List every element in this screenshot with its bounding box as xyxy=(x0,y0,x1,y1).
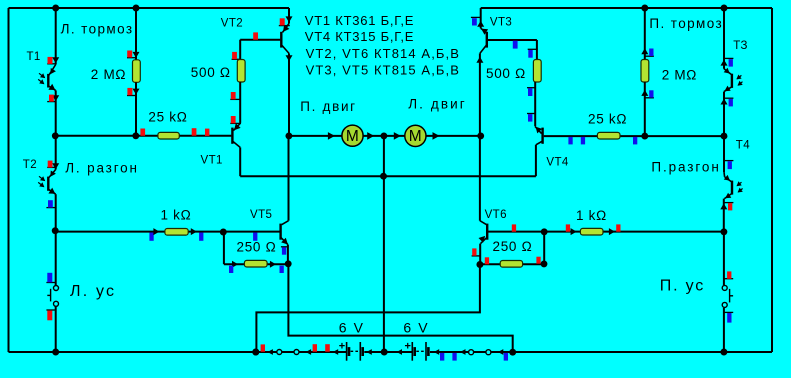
wire collector row xyxy=(240,175,536,177)
blue indicator before R 1k-left xyxy=(149,233,153,241)
blue indicator 2 below R 250-left xyxy=(280,266,284,273)
wire right button to bottom rail xyxy=(723,308,725,352)
svg-text:M: M xyxy=(346,128,359,145)
current arrow up below T3 xyxy=(721,99,728,105)
current arrow battery row 5 xyxy=(397,349,402,355)
pushbutton SB2 actuator xyxy=(729,289,731,303)
node VT6 bus to rail xyxy=(252,349,259,356)
node left accel / feedback junction xyxy=(220,229,227,236)
wire 500-left top drop xyxy=(239,40,241,60)
wire T2 collector feed xyxy=(55,136,57,170)
current arrow feedback-left 1 xyxy=(232,261,238,268)
svg-text:П. ус: П. ус xyxy=(660,277,705,294)
red indicator before R 1k-right xyxy=(566,224,570,231)
transistor VT6 (KT814 PNP) xyxy=(480,221,487,225)
resistor R8 2 MOhm right xyxy=(641,60,649,83)
wire T1 emitter to node xyxy=(55,90,57,135)
current arrow up above R 2M-right xyxy=(641,48,648,54)
svg-text:2 МΩ: 2 МΩ xyxy=(662,68,697,83)
node top rail / 2M-left xyxy=(133,5,140,12)
wire VT4 collector drop xyxy=(535,145,537,176)
node VT5 emitter junction xyxy=(285,260,292,267)
current arrow feedback-left 2 xyxy=(270,261,276,268)
svg-text:VT1: VT1 xyxy=(201,154,223,166)
terminal post right B xyxy=(486,350,491,355)
red indicator at VT6 emitter xyxy=(472,255,481,257)
red indicator 1 right of R 25k-left xyxy=(192,128,197,136)
red indicator 1 below R 500-left xyxy=(230,98,241,100)
terminal post left A xyxy=(277,350,282,355)
wire 500-right bottom to VT4 emitter xyxy=(534,82,536,126)
svg-text:VT1 КТ361 Б,Г,Е: VT1 КТ361 Б,Г,Е xyxy=(305,13,414,28)
svg-text:250 Ω: 250 Ω xyxy=(237,240,277,255)
blue indicator before VT5 base xyxy=(253,233,257,241)
current arrow battery row 8 xyxy=(498,349,503,355)
phototransistor T2 xyxy=(49,170,56,178)
red indicator above R 2M-left xyxy=(127,57,137,59)
red indicator above T1 xyxy=(47,63,56,65)
svg-text:6 V: 6 V xyxy=(339,319,365,335)
wire center column xyxy=(383,136,385,352)
node top-left rail / T1 column xyxy=(52,5,59,12)
current arrow down above T2 xyxy=(52,163,59,169)
resistor R7 25 kOhm right xyxy=(597,132,620,139)
red indicator at VT2 emitter xyxy=(279,25,290,27)
wire 2M-left top feed xyxy=(135,8,137,60)
svg-text:25 kΩ: 25 kΩ xyxy=(588,111,627,126)
red indicator 2 above R 250-right xyxy=(536,257,540,264)
current arrow battery row 3 xyxy=(333,349,338,355)
transistor VT2 (KT814 PNP) xyxy=(283,24,290,33)
node right base junction xyxy=(721,133,728,140)
node VT6 emitter junction xyxy=(476,261,483,268)
svg-text:П. тормоз: П. тормоз xyxy=(649,16,723,31)
pushbutton SB1 actuator xyxy=(50,289,52,302)
node bottom rail right xyxy=(720,349,727,356)
transistor VT4 (KT315 NPN) xyxy=(541,128,543,144)
node motor row center xyxy=(380,132,387,139)
svg-text:VT5: VT5 xyxy=(250,209,272,221)
svg-text:Л. разгон: Л. разгон xyxy=(65,160,139,175)
svg-text:500 Ω: 500 Ω xyxy=(191,65,231,80)
wire top-right rail xyxy=(481,7,772,9)
phototransistor T1 xyxy=(49,65,56,76)
red indicator battery row 1 xyxy=(261,344,265,351)
red indicator above T2 xyxy=(47,166,56,168)
red indicator 1 above R 250-right xyxy=(485,257,489,264)
red indicator left of R 25k-left xyxy=(140,129,145,136)
wire right base row xyxy=(544,135,724,137)
node top rail / T3 column xyxy=(721,5,728,12)
blue indicator above T3 xyxy=(723,57,733,59)
resistor R3 500 Ohm left xyxy=(237,60,245,83)
wire VT5 collector riser xyxy=(288,136,290,221)
current arrow up below R 2M-right xyxy=(641,90,648,96)
svg-text:VT3: VT3 xyxy=(490,16,512,28)
wire T1 collector feed xyxy=(55,8,57,65)
red indicator below T1 xyxy=(47,101,56,103)
svg-text:+: + xyxy=(339,340,345,352)
wire VT6 emitter drop xyxy=(479,244,481,265)
wire 2M-right bottom xyxy=(644,82,646,136)
blue indicator 2 after VT4 base xyxy=(581,137,585,145)
svg-text:250 Ω: 250 Ω xyxy=(493,239,533,254)
wire feedback-right row xyxy=(480,263,544,265)
current arrow accel-left 1 xyxy=(153,228,159,235)
blue indicator above left button xyxy=(46,282,56,284)
pushbutton SB2 right contact B xyxy=(722,302,727,307)
current arrow accel-right 2 xyxy=(609,228,615,235)
current arrow down below T1 xyxy=(52,95,59,101)
current arrow motor row 1 xyxy=(328,132,335,140)
current arrow battery row 7 xyxy=(460,349,465,355)
red indicator after VT6 base xyxy=(512,224,516,231)
svg-text:25 kΩ: 25 kΩ xyxy=(148,110,187,125)
wire right accel row xyxy=(487,231,724,233)
wire VT2 collector to motor row xyxy=(288,53,290,136)
blue indicator 1 after VT4 base xyxy=(568,137,572,145)
current arrow battery row 6 xyxy=(434,349,439,355)
wire T3 emitter to node xyxy=(723,92,725,137)
resistor R10 250 Ohm right xyxy=(500,261,522,268)
node motor row left xyxy=(285,132,292,139)
blue indicator below R 2M-right xyxy=(644,97,654,99)
node collector row / center column xyxy=(380,173,387,180)
blue indicator 1 below R 500-right xyxy=(527,87,536,89)
pushbutton SB1 left contact A xyxy=(54,286,59,291)
red indicator 2 right of R 25k-left xyxy=(205,129,209,136)
phototransistor T3 xyxy=(724,69,731,75)
wire T2 emitter to node xyxy=(55,194,57,231)
svg-text:VT2, VT6 КТ814 А,Б,В: VT2, VT6 КТ814 А,Б,В xyxy=(306,46,460,61)
wire bottom battery rail left xyxy=(9,351,347,353)
wire VT5 emitter drop xyxy=(287,245,289,265)
current arrow up below T4 xyxy=(720,203,727,209)
current arrow accel-right 1 xyxy=(571,228,577,235)
svg-text:VT4 КТ315 Б,Г,Е: VT4 КТ315 Б,Г,Е xyxy=(305,29,414,44)
wire 2M-right top feed xyxy=(644,8,646,60)
wire feedback-left row xyxy=(224,263,288,265)
transistor VT3 (KT815 NPN) xyxy=(481,28,486,32)
wire feedback-left drop xyxy=(223,232,225,265)
current arrow up at VT3 emitter xyxy=(477,21,484,27)
svg-text:VT4: VT4 xyxy=(546,157,568,169)
svg-text:Л. ус: Л. ус xyxy=(70,283,116,300)
wire VT2 emitter drop xyxy=(288,8,290,24)
red indicator below T4 xyxy=(723,202,733,204)
node VT5 bus to rail xyxy=(509,349,516,356)
current arrow motor row 4 xyxy=(433,132,440,140)
current arrow down at VT2 emitter xyxy=(286,16,293,22)
node feedback-right to drop xyxy=(541,260,548,267)
wire left frame rail xyxy=(8,8,10,352)
current arrow battery row 2 xyxy=(306,349,311,355)
blue indicator above T4 xyxy=(725,160,734,162)
blue indicator right of R 25k-right xyxy=(633,137,637,145)
red indicator above right button xyxy=(723,278,733,280)
red indicator battery row 3 xyxy=(325,344,330,352)
wire bottom battery rail mid xyxy=(364,351,412,353)
terminal post right A xyxy=(469,350,474,355)
resistor R5 250 Ohm left xyxy=(244,260,267,267)
blue indicator battery row 3 xyxy=(504,353,508,361)
svg-text:VT2: VT2 xyxy=(221,18,243,30)
node top rail / 2M-right xyxy=(641,5,648,12)
wire VT6 bus xyxy=(256,264,480,352)
svg-text:VT3, VT5 КТ815 А,Б,В: VT3, VT5 КТ815 А,Б,В xyxy=(306,62,460,77)
red indicator on VT2 base wire xyxy=(253,32,258,39)
wire VT2 base feed xyxy=(240,39,280,41)
node 2M-right / base wire junction xyxy=(641,133,648,140)
node right accel junction xyxy=(720,228,727,235)
wire 500-left bottom to VT1 emitter xyxy=(239,82,241,123)
node T1-T2 junction xyxy=(52,132,59,139)
current arrow motor row 2 xyxy=(367,132,374,140)
node left accel junction xyxy=(52,227,59,234)
svg-text:1 kΩ: 1 kΩ xyxy=(161,207,192,222)
transistor VT5 (KT815 NPN) xyxy=(282,221,289,225)
wire down to left button xyxy=(55,231,57,286)
wire left button to bottom rail xyxy=(55,307,57,352)
node battery rail left junction xyxy=(252,349,259,356)
blue indicator battery row 2 xyxy=(452,353,456,361)
wire 500-right top drop xyxy=(536,40,538,60)
current arrow motor row 3 xyxy=(394,132,401,140)
node motor row right xyxy=(477,132,484,139)
svg-text:1 kΩ: 1 kΩ xyxy=(576,208,607,223)
svg-text:T2: T2 xyxy=(23,159,37,171)
svg-text:2 МΩ: 2 МΩ xyxy=(91,67,126,82)
blue indicator above R 500-right xyxy=(528,48,538,50)
resistor R1 2 MOhm left xyxy=(133,60,141,83)
current arrow down below R 2M-left xyxy=(133,89,140,95)
svg-text:П.разгон: П.разгон xyxy=(651,160,720,175)
wire down to right button xyxy=(723,232,725,285)
current arrow up above T3 xyxy=(721,60,728,66)
wire T4 emitter to node xyxy=(723,199,725,232)
wire T4 collector feed xyxy=(723,136,725,172)
blue indicator at VT3 emitter xyxy=(471,16,482,18)
blue indicator below right button xyxy=(723,311,733,313)
current arrow up on VT3 collector xyxy=(476,57,483,63)
svg-text:П. двиг: П. двиг xyxy=(300,99,357,114)
svg-text:500 Ω: 500 Ω xyxy=(486,66,526,81)
current arrow down on VT2 collector xyxy=(286,55,293,61)
terminal post left B xyxy=(294,350,299,355)
wire T3 collector feed xyxy=(723,8,725,69)
pushbutton SB1 left contact B xyxy=(54,301,59,306)
wire VT3 base feed xyxy=(488,39,537,41)
wire left accel row xyxy=(56,231,280,233)
wire bottom battery rail right xyxy=(430,351,772,353)
node bottom rail left xyxy=(52,349,59,356)
svg-text:6 V: 6 V xyxy=(403,319,429,335)
red indicator below left button xyxy=(46,309,56,311)
svg-text:Л. тормоз: Л. тормоз xyxy=(61,21,134,36)
node center column bottom xyxy=(381,349,388,356)
blue indicator above R 2M-right xyxy=(644,55,654,57)
wire VT6 collector riser xyxy=(479,136,481,221)
node right accel / feedback junction xyxy=(541,228,548,235)
resistor R9 1 kOhm right xyxy=(580,228,603,235)
phototransistor T4 xyxy=(723,172,726,177)
wire VT3 emitter drop xyxy=(480,8,482,28)
blue indicator battery row 1 xyxy=(440,353,444,361)
svg-text:+: + xyxy=(405,341,411,353)
wire VT1 collector drop xyxy=(239,147,241,176)
current arrow accel-left 2 xyxy=(191,228,197,235)
resistor R2 25 kOhm left xyxy=(158,132,179,139)
wire 2M-left bottom xyxy=(135,82,137,136)
motor M2 L.dvig xyxy=(405,125,426,146)
red indicator battery row 2 xyxy=(313,344,317,352)
resistor R6 500 Ohm right xyxy=(533,60,541,83)
blue indicator below T2 xyxy=(46,207,56,209)
svg-text:ТЗ: ТЗ xyxy=(733,40,748,52)
current arrow battery row 1 xyxy=(268,349,273,355)
current arrow battery row 4 xyxy=(366,349,371,355)
red indicator above R 500-left xyxy=(232,58,241,60)
svg-text:T1: T1 xyxy=(27,51,41,63)
wire VT5 bus xyxy=(288,264,512,352)
wire right frame rail xyxy=(771,8,773,352)
svg-text:T4: T4 xyxy=(736,139,750,151)
wire left base row xyxy=(56,135,232,137)
motor M1 P.dvig xyxy=(342,125,363,146)
current arrow down above T1 xyxy=(52,57,59,63)
transistor VT1 (KT361 PNP) xyxy=(231,128,233,144)
current arrow down above R 2M-left xyxy=(133,52,140,58)
pushbutton SB2 right contact A xyxy=(722,285,727,290)
wire top-left rail xyxy=(9,7,290,9)
red indicator after R 1k-right xyxy=(616,224,620,231)
svg-text:Л. двиг: Л. двиг xyxy=(408,97,467,112)
wire feedback-right drop xyxy=(543,232,545,265)
blue indicator 1 below R 250-left xyxy=(229,266,233,273)
blue indicator after R 1k-left xyxy=(199,233,203,241)
blue indicator at VT5 emitter xyxy=(281,246,289,248)
svg-text:M: M xyxy=(409,128,422,145)
node 2M-left / base wire junction xyxy=(132,132,139,139)
red indicator 2 below R 500-left xyxy=(230,122,241,124)
blue indicator below T3 xyxy=(723,97,733,99)
resistor R4 1 kOhm left xyxy=(165,229,188,236)
blue indicator on VT3 base wire xyxy=(513,41,518,49)
blue indicator 2 below R 500-right xyxy=(527,113,536,115)
svg-text:VT6: VT6 xyxy=(485,209,507,221)
wire VT3 collector to motor row xyxy=(479,53,481,136)
wire motor row xyxy=(288,135,480,137)
red indicator below R 2M-left xyxy=(127,95,137,97)
